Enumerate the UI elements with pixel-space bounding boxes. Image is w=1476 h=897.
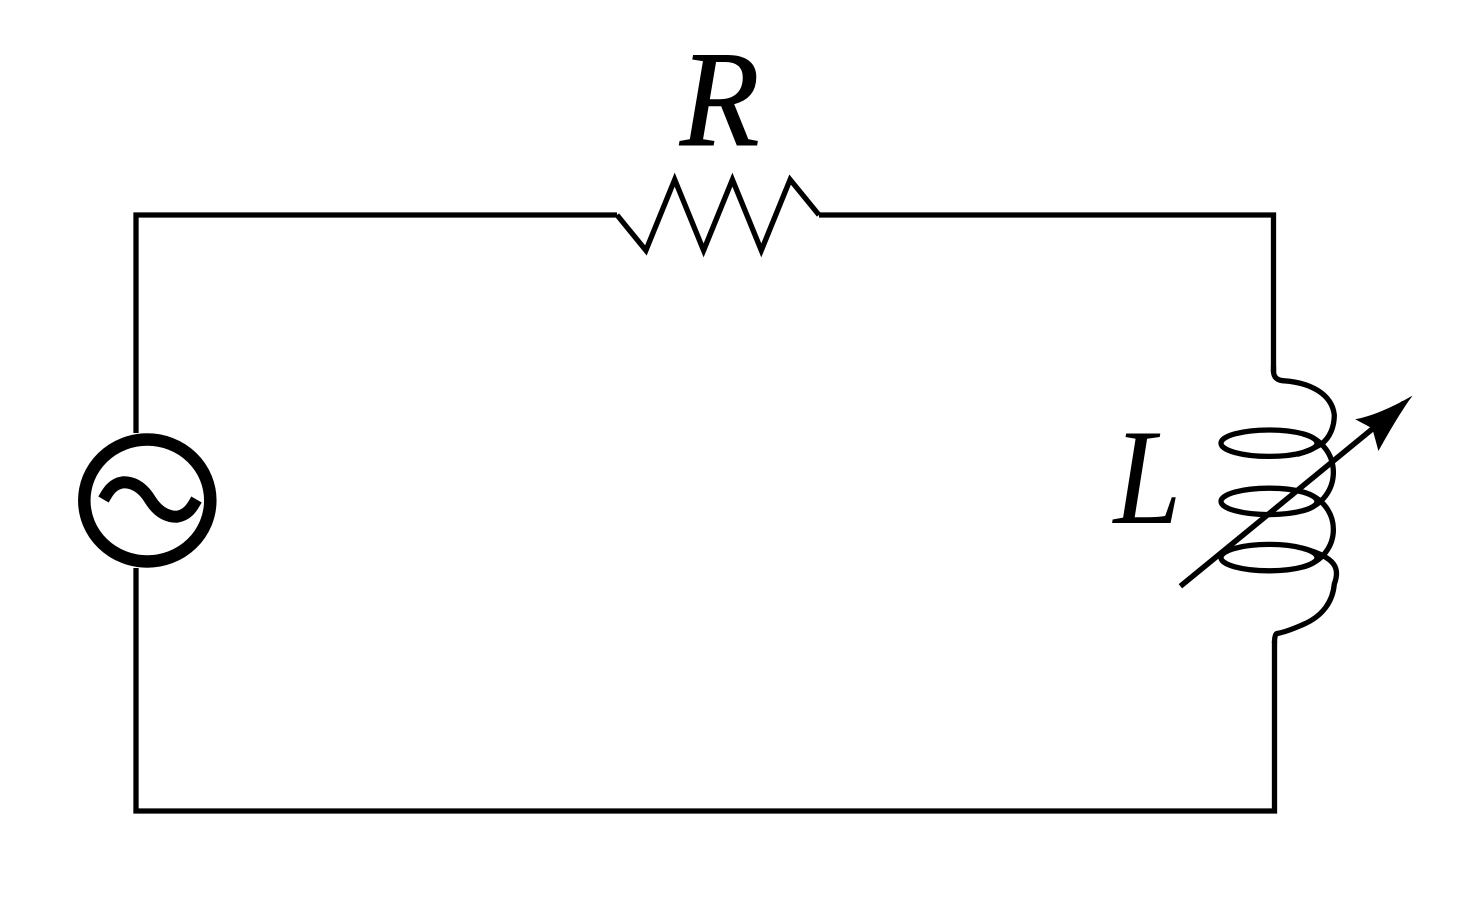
- wire right-lower segment: [136, 568, 1275, 811]
- svg-text:L: L: [1112, 401, 1182, 553]
- svg-text:R: R: [679, 23, 759, 175]
- inductor L coil arc 1-2: [1303, 434, 1333, 511]
- wire top-right segment: [819, 215, 1274, 372]
- inductor L coil loop 1: [1221, 430, 1317, 456]
- inductor L coil loop 3: [1221, 544, 1317, 570]
- inductor L coil arc 2-3: [1303, 492, 1333, 567]
- inductor L coil top arc: [1274, 366, 1335, 455]
- wire top-left segment: [136, 215, 617, 433]
- arrow shaft (variable inductor): [1180, 403, 1404, 586]
- AC source circle: [84, 440, 210, 562]
- arrow head: [1353, 382, 1426, 451]
- resistor R: [617, 180, 819, 251]
- inductor L coil bottom arc: [1275, 548, 1337, 643]
- AC source sine: [104, 482, 197, 517]
- inductor L coil loop 2: [1221, 488, 1317, 514]
